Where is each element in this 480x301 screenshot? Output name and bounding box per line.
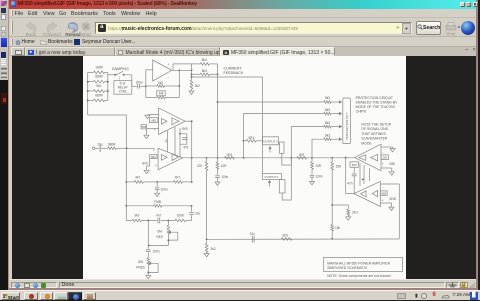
svg-text:+: + (381, 198, 383, 202)
svg-text:GND: GND (389, 197, 397, 201)
op-amp U3 (158, 148, 183, 169)
svg-text:22u: 22u (250, 232, 255, 236)
wire to U3 input (127, 147, 154, 149)
buffer U5b (372, 190, 377, 196)
ground (149, 159, 151, 167)
wire to damping switch (108, 74, 115, 76)
wire load2 return (282, 153, 292, 165)
wire to U1 input (145, 70, 147, 98)
buffer U4a (359, 155, 366, 161)
svg-text:-: - (382, 150, 383, 154)
node input junction (126, 147, 128, 149)
svg-text:3k2: 3k2 (211, 247, 216, 251)
ground U4 top (381, 146, 393, 148)
svg-text:CTRL: CTRL (119, 89, 127, 93)
op-amp U2 (159, 108, 186, 135)
svg-text:22u: 22u (195, 211, 200, 215)
svg-text:NOTE THE SETUP: NOTE THE SETUP (361, 122, 391, 126)
svg-text:680R: 680R (95, 75, 103, 79)
wire load1 return (282, 158, 291, 200)
wire feedback column (178, 70, 180, 97)
relay control box D.G. RELAY CTRL (114, 81, 132, 95)
wire protection row 2 (244, 114, 324, 158)
ground (191, 89, 193, 91)
capacitor C2 100u to ground (156, 182, 158, 187)
svg-text:8k3: 8k3 (325, 96, 330, 100)
svg-text:RA: RA (165, 139, 168, 143)
resistor FMB row (125, 205, 127, 207)
svg-text:100n: 100n (153, 250, 160, 254)
svg-text:20K: 20K (138, 260, 144, 264)
svg-text:MARSHALL MF350 POWER AMPLIFIER: MARSHALL MF350 POWER AMPLIFIER (327, 261, 390, 265)
interstage bus U4 U5 (359, 163, 361, 186)
svg-text:OUTPUT 2: OUTPUT 2 (263, 140, 278, 144)
svg-text:MODE OF THE TDA7293: MODE OF THE TDA7293 (356, 105, 395, 109)
wire U3 output to feedback (191, 158, 193, 182)
PROTECTION CCT box (343, 98, 351, 144)
8V5 box slave (350, 162, 358, 168)
svg-text:3k2: 3k2 (195, 84, 200, 88)
svg-text:FMB: FMB (154, 200, 161, 204)
svg-text:15k: 15k (335, 226, 340, 230)
title box (324, 257, 403, 271)
OUTPUT 1 box (263, 174, 282, 180)
buffer U2a (161, 118, 167, 124)
feedback rail bottom (207, 238, 400, 240)
ground (310, 182, 315, 185)
svg-text:100u: 100u (136, 80, 143, 84)
ground (146, 275, 151, 278)
svg-text:680: 680 (381, 192, 386, 196)
svg-text:3K3: 3K3 (282, 234, 288, 238)
ground (145, 115, 150, 118)
wire pot to 100n (149, 244, 169, 246)
interstage bus (167, 131, 169, 152)
ground (145, 129, 147, 135)
svg-text:FEEDBACK: FEEDBACK (224, 71, 244, 75)
svg-text:8V5: 8V5 (182, 127, 188, 131)
svg-text:100u: 100u (161, 187, 168, 191)
load rectangle output1 (279, 180, 285, 194)
svg-text:OUTPUT 1: OUTPUT 1 (264, 175, 279, 179)
svg-text:8k3: 8k3 (325, 133, 330, 137)
wire 8k3 bottom row (191, 64, 193, 80)
svg-text:100R: 100R (95, 65, 103, 69)
power op-amp U5 (354, 181, 380, 206)
svg-text:FM: FM (159, 92, 164, 96)
svg-text:5k1: 5k1 (96, 84, 101, 88)
svg-text:680R: 680R (108, 142, 116, 146)
svg-text:8V0: 8V0 (142, 161, 148, 165)
svg-text:8V5: 8V5 (352, 163, 357, 167)
svg-text:SLAVE/MASTER: SLAVE/MASTER (361, 137, 388, 141)
resistor box 680 U2 (150, 118, 158, 123)
capacitor C-mid loop (180, 134, 187, 144)
FM pot box (157, 91, 165, 96)
svg-text:CHIPS: CHIPS (356, 110, 367, 114)
feedback wire right (398, 184, 400, 239)
input terminal (92, 147, 95, 150)
svg-text:Back: Back (25, 32, 36, 37)
zobel capacitor C6 100n (215, 175, 220, 177)
V88 supply box (141, 125, 147, 129)
svg-text:PRES: PRES (136, 266, 145, 270)
svg-text:47K: 47K (197, 164, 203, 168)
wire mid column (179, 128, 181, 158)
buffer U3b (172, 154, 178, 161)
svg-text:15K: 15K (336, 165, 342, 169)
svg-text:Stop: Stop (81, 32, 91, 37)
svg-text:-: - (382, 186, 383, 190)
U3 feedback row 4k7s (125, 181, 127, 183)
svg-text:8k3: 8k3 (325, 108, 330, 112)
arrow output1 (269, 182, 271, 187)
svg-text:100n: 100n (221, 175, 228, 179)
svg-text:8k3: 8k3 (202, 58, 207, 62)
resistor box 680 U3 (150, 155, 157, 159)
buffer U3a (162, 155, 168, 161)
svg-text:680: 680 (151, 119, 156, 123)
resistor R5 3k2 to ground (190, 80, 193, 89)
wire 8k3 top row (172, 64, 174, 70)
svg-text:6M: 6M (158, 230, 163, 234)
svg-text:OF SIGNAL GND: OF SIGNAL GND (361, 127, 388, 131)
main output rail (183, 157, 355, 159)
svg-text:DAMPING: DAMPING (112, 67, 129, 71)
svg-text:MODE: MODE (361, 142, 372, 146)
svg-text:SIMPLIFIED SCHEMATIC: SIMPLIFIED SCHEMATIC (327, 266, 368, 270)
ground (346, 217, 351, 220)
svg-text:4K7: 4K7 (175, 176, 181, 180)
power op-amp U4 (355, 144, 381, 171)
svg-text:3K3: 3K3 (352, 211, 358, 215)
svg-text:10R: 10R (315, 164, 321, 168)
svg-text:4n7: 4n7 (156, 214, 161, 218)
wire switch to cap (124, 75, 132, 87)
ground (204, 254, 209, 257)
capacitor C3 22u (191, 206, 193, 212)
ground U4 bottom (381, 167, 392, 169)
arrow output2 (269, 148, 271, 153)
svg-text:PROTECTION CIRCUIT: PROTECTION CIRCUIT (356, 96, 394, 100)
ground (215, 182, 220, 185)
svg-text:100n: 100n (316, 175, 323, 179)
vertical bus right of 8k3s (217, 64, 219, 158)
resistor box 20k U4 (381, 155, 388, 160)
op-amp U1 (153, 60, 172, 81)
svg-text:+: + (155, 163, 157, 167)
svg-text:PROTECTION CCT: PROTECTION CCT (345, 113, 349, 140)
wire (88, 114, 127, 116)
svg-text:100K: 100K (177, 214, 185, 218)
svg-text:680: 680 (151, 155, 156, 159)
buffer U4b (371, 154, 378, 160)
bottom divider row (126, 220, 132, 222)
node ladder left junctions (87, 81, 89, 83)
svg-text:-: - (154, 113, 155, 117)
svg-text:-: - (168, 75, 169, 79)
load rectangle output2 (280, 142, 285, 153)
wire to slave amp (345, 158, 347, 194)
node A (145, 85, 147, 87)
svg-text:Forward: Forward (43, 32, 61, 37)
capacitor C5 100n (146, 249, 151, 251)
capacitor C9 47n (353, 167, 355, 173)
resistor FM (146, 97, 157, 99)
svg-text:4k7: 4k7 (135, 176, 140, 180)
zobel2 capacitor C7 100n (310, 174, 315, 176)
svg-text:+: + (382, 162, 384, 166)
OUTPUT 2 box (263, 137, 279, 145)
svg-text:3k9: 3k9 (134, 214, 139, 218)
svg-text:47n: 47n (347, 182, 352, 186)
svg-text:10R: 10R (221, 164, 227, 168)
svg-text:CURRENT: CURRENT (224, 66, 243, 70)
resistor box 680 U5 (380, 191, 387, 196)
wire (147, 221, 149, 249)
svg-text:8k3: 8k3 (325, 121, 330, 125)
ladder right rail (107, 72, 109, 100)
svg-text:47k: 47k (183, 146, 188, 150)
wire to 3k3 (332, 204, 348, 206)
svg-text:NOTE: Some components are not: NOTE: Some components are not shown! (327, 274, 391, 278)
svg-text:RES: RES (156, 235, 162, 239)
buffer U2b (172, 118, 179, 125)
svg-text:8k3: 8k3 (202, 69, 207, 73)
wire U2 output (185, 120, 192, 122)
wire protection row 3 (291, 127, 324, 158)
wire left column (125, 115, 127, 221)
svg-text:+: + (167, 63, 169, 67)
svg-text:20k: 20k (382, 156, 387, 160)
wire protection row 1 (218, 101, 324, 103)
wire protection row 4 (312, 139, 324, 158)
svg-text:V88: V88 (142, 125, 147, 129)
ground U5 (380, 202, 391, 204)
wire current feedback (192, 76, 263, 78)
switch SW-damping (114, 74, 116, 76)
wire U1 output (172, 69, 192, 71)
buffer U5a (361, 191, 366, 197)
wire down from current feedback (262, 77, 264, 174)
svg-text:V88: V88 (389, 162, 395, 166)
svg-text:Print: Print (446, 31, 456, 36)
svg-text:680R: 680R (95, 93, 103, 97)
input damping resistor ladder left rail (87, 72, 89, 115)
svg-text:ENABLES THE STAND-BY: ENABLES THE STAND-BY (356, 101, 398, 105)
svg-text:THAT DEFINES: THAT DEFINES (361, 132, 386, 136)
svg-text:-: - (154, 150, 155, 154)
